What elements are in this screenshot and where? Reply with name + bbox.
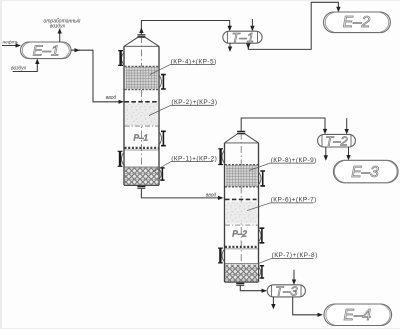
manhole left upper P-2: [218, 149, 225, 165]
frame edge left: [0, 0, 2, 329]
pipe coolant into T-3: [293, 270, 295, 280]
label (KP-8)+(KP-9) with leader: [250, 157, 317, 170]
support grate P-1: [125, 148, 159, 150]
pipe air into E-1 bottom: [13, 64, 38, 72]
heat exchanger T-1: [223, 30, 262, 45]
pipe P-1 bottoms to column P-2 feed: [141, 189, 219, 198]
manhole left lower P-2: [218, 248, 225, 263]
manhole right at bed1 P-2: [258, 171, 265, 186]
label (KP-1)+(KP-2) with leader: [153, 155, 217, 171]
column P-2 bottom outlet fitting: [236, 283, 244, 285]
column P-1 bottom outlet fitting: [137, 186, 145, 188]
packing bed KR-2+KR-3: [125, 103, 159, 126]
pipe P-1 overhead vapor to T-1: [139, 21, 232, 35]
manhole M1 left upper P-1: [118, 51, 124, 66]
svg-text:воздух: воздух: [50, 23, 66, 29]
svg-text:Т–1: Т–1: [232, 30, 254, 45]
label (KP-6)+(KP-7) with leader: [247, 197, 317, 211]
pipe coolant into T-2: [346, 118, 348, 129]
label (KP-4)+(KP-5) with leader: [150, 58, 217, 74]
svg-text:Р–1: Р–1: [134, 133, 149, 142]
pipe neft feed into E-1: [2, 45, 17, 47]
pipe coolant into T-1: [251, 19, 253, 27]
pipe coolant out of T-3: [272, 297, 274, 305]
heat exchanger T-3: [267, 284, 305, 299]
vessel E-2: [324, 12, 391, 33]
packing bed KR-4+KR-5: [125, 66, 159, 89]
svg-text:Е–1: Е–1: [33, 42, 60, 59]
frame edge bottom: [0, 328, 400, 329]
svg-text:Е–2: Е–2: [343, 14, 371, 31]
vessel E-4: [324, 304, 392, 326]
pipe coolant out of T-2: [325, 147, 327, 156]
manhole M4 left lower P-1: [118, 151, 125, 166]
feed distributor line P-1: [125, 101, 158, 103]
pipe T-3 to E-4: [293, 297, 323, 317]
svg-text:Е–3: Е–3: [351, 164, 379, 181]
pipe T-1 condensate to E-2: [246, 2, 341, 49]
manhole M3 right middle P-1: [159, 131, 166, 145]
manhole M5 right at bed3 P-1: [159, 168, 165, 180]
pipe P-2 overhead vapor to T-2: [241, 118, 327, 134]
frame edge top: [0, 0, 400, 1]
manhole M2 right at bed1 P-1: [159, 75, 166, 89]
pipe P-2 bottoms to T-3: [240, 286, 267, 293]
vessel E-3: [333, 160, 398, 183]
column P-1 centerline: [140, 36, 142, 187]
heat exchanger T-2: [318, 134, 356, 149]
vessel E-1: [21, 42, 72, 59]
column P-2 body: [225, 134, 259, 282]
pipe spent air out of E-1 top: [59, 33, 61, 42]
packing bed KR-1+KR-2: [125, 167, 159, 185]
svg-text:ввод: ввод: [106, 95, 117, 101]
packing bed KR-7+KR-8: [225, 264, 258, 282]
svg-text:Е–4: Е–4: [344, 307, 372, 324]
pipe E-1 outlet to column P-1 feed: [71, 50, 121, 102]
manhole right middle P-2: [258, 228, 264, 243]
manhole right at bed3 P-2: [258, 266, 264, 278]
column P-2 top flange fitting: [237, 131, 245, 133]
packing bed KR-6+KR-7: [225, 202, 258, 226]
label (KP-2)+(KP-3) with leader: [149, 99, 218, 115]
label (KP-7)+(KP-8) with leader: [258, 252, 317, 264]
support grate P-2: [225, 247, 258, 249]
svg-text:Р–2: Р–2: [232, 229, 247, 238]
packing bed KR-8+KR-9: [225, 165, 258, 187]
svg-text:Т–3: Т–3: [275, 284, 298, 299]
svg-text:Т–2: Т–2: [325, 134, 348, 149]
svg-text:воздух: воздух: [11, 65, 27, 71]
column P-2 centerline: [240, 133, 242, 284]
feed distributor line P-2: [225, 198, 257, 200]
column P-1 body: [124, 37, 159, 185]
svg-text:ввод: ввод: [206, 192, 217, 198]
column P-1 top flange fitting: [137, 35, 145, 38]
pipe coolant out of T-1: [229, 43, 231, 47]
pipe T-2 condensate to E-3: [348, 147, 350, 155]
